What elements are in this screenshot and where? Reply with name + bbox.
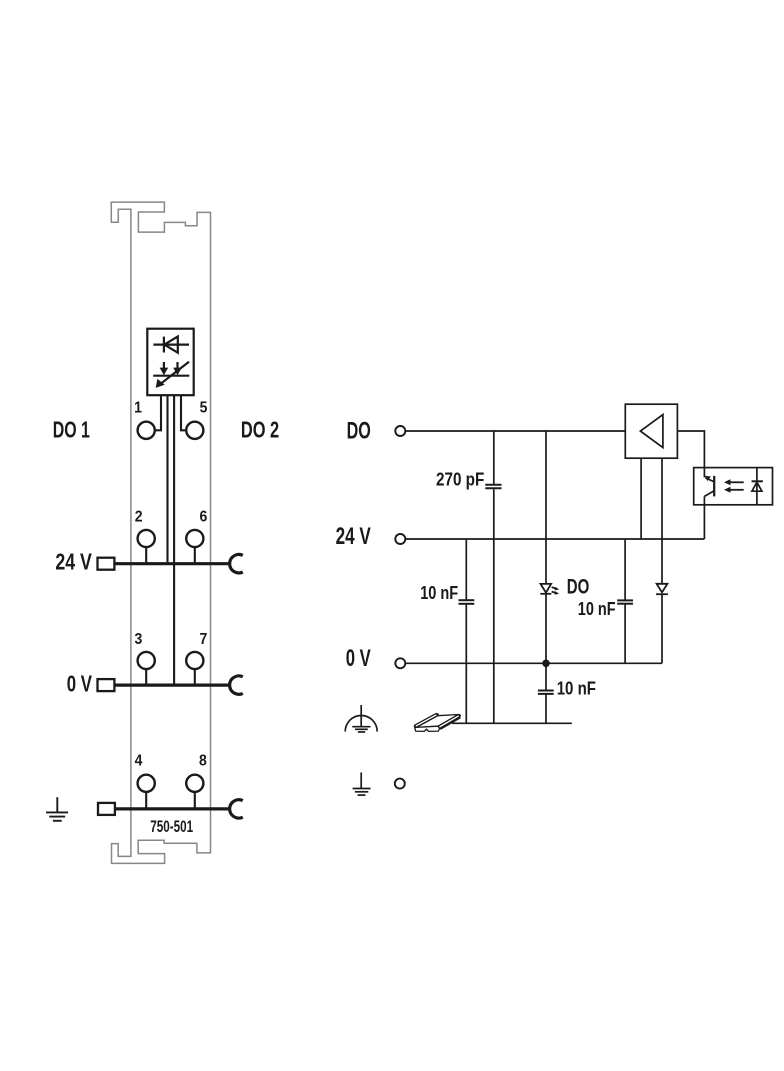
capacitor C1 270 pF plates — [485, 485, 501, 489]
svg-text:0 V: 0 V — [67, 671, 92, 697]
pin wires from LED box — [155, 396, 186, 686]
diode D3 symbol — [656, 584, 668, 594]
24V rail wire — [405, 538, 704, 540]
svg-text:270 pF: 270 pF — [436, 469, 484, 490]
svg-text:2: 2 — [135, 509, 143, 526]
earth symbol (bottom) — [353, 773, 371, 796]
LED DO symbol — [540, 584, 557, 594]
terminal 2 — [138, 530, 155, 547]
svg-text:7: 7 — [200, 631, 208, 648]
svg-text:10 nF: 10 nF — [578, 598, 616, 619]
diode D3 wire — [661, 458, 663, 663]
capacitor C3 10 nF wire (bottom) — [545, 663, 547, 723]
ground symbol (module left) — [46, 797, 68, 821]
ground input box — [98, 803, 115, 815]
0V bus arc connector — [230, 676, 243, 694]
svg-text:5: 5 — [200, 400, 208, 417]
svg-text:1: 1 — [134, 400, 142, 417]
ground bus line — [115, 807, 230, 810]
pin numbers — [134, 400, 207, 770]
wire amp out to optocoupler — [677, 431, 704, 468]
svg-text:DO 2: DO 2 — [241, 417, 279, 443]
svg-text:750-501: 750-501 — [150, 818, 193, 836]
terminal 3 — [138, 652, 155, 669]
optocoupler box U3 — [694, 468, 773, 505]
svg-text:24 V: 24 V — [336, 523, 371, 550]
optocoupler light arrows — [728, 482, 744, 490]
24V bus arc connector — [230, 555, 243, 573]
svg-text:DO: DO — [347, 417, 371, 444]
terminal 4 — [138, 775, 155, 792]
svg-text:10 nF: 10 nF — [420, 582, 458, 603]
svg-text:DO 1: DO 1 — [53, 417, 90, 443]
wire to 0V bus — [173, 396, 175, 686]
svg-text:6: 6 — [200, 509, 208, 526]
terminal 5 — [186, 422, 203, 439]
24V input box — [98, 558, 115, 570]
wire pin5 — [181, 396, 186, 431]
terminal 8 — [186, 775, 203, 792]
capacitor C2 10 nF plates — [459, 600, 475, 604]
svg-text:8: 8 — [199, 752, 207, 769]
svg-text:4: 4 — [135, 752, 143, 769]
triac/arrow symbol D2 (bottom) — [153, 362, 189, 384]
svg-text:24 V: 24 V — [55, 548, 92, 574]
svg-text:3: 3 — [135, 631, 143, 648]
DO rail wire — [405, 430, 625, 432]
0V bus line — [114, 683, 229, 686]
0V rail wire — [405, 662, 662, 664]
bottom rail wire — [452, 722, 572, 724]
terminal 6 — [186, 530, 203, 547]
svg-text:DO: DO — [567, 575, 590, 598]
driver triangle — [640, 415, 663, 448]
module 750-501 outline — [111, 202, 210, 863]
svg-text:10 nF: 10 nF — [557, 678, 596, 699]
LED box U1 — [147, 329, 193, 396]
amp box wire (left leg) — [640, 458, 642, 539]
phototransistor Q1 — [704, 468, 714, 539]
capacitor C1 270 pF wire — [493, 431, 495, 723]
DIN rail icon — [414, 713, 459, 731]
wire to 24V bus — [166, 396, 168, 564]
LED DO wire — [545, 431, 547, 663]
capacitor C2 10 nF wire (left) — [465, 539, 467, 723]
optocoupler diode D4 — [752, 468, 762, 505]
LED diode D1 (top, pointing left) — [153, 337, 189, 353]
wire pin1 — [155, 396, 161, 431]
junction node dot — [542, 660, 550, 668]
node earth terminal circle — [395, 779, 405, 789]
24V bus line — [114, 562, 229, 565]
terminal circles — [138, 422, 204, 792]
op-amp / driver box U2 — [625, 404, 677, 458]
terminal 1 — [138, 422, 155, 439]
capacitor C4 10 nF wire (right) — [624, 539, 626, 663]
terminal 7 — [186, 652, 203, 669]
node 0V terminal circle — [395, 658, 405, 668]
ground bus arc connector — [230, 800, 243, 818]
capacitor C3 10 nF plates — [538, 691, 554, 694]
0V input box — [98, 679, 115, 691]
terminal stems — [146, 547, 195, 809]
chassis ground symbol (arc) — [345, 705, 377, 732]
svg-text:0 V: 0 V — [346, 645, 371, 672]
node 24V terminal circle — [395, 534, 405, 544]
node DO terminal circle — [395, 426, 405, 436]
capacitor C4 10 nF plates — [617, 600, 633, 603]
